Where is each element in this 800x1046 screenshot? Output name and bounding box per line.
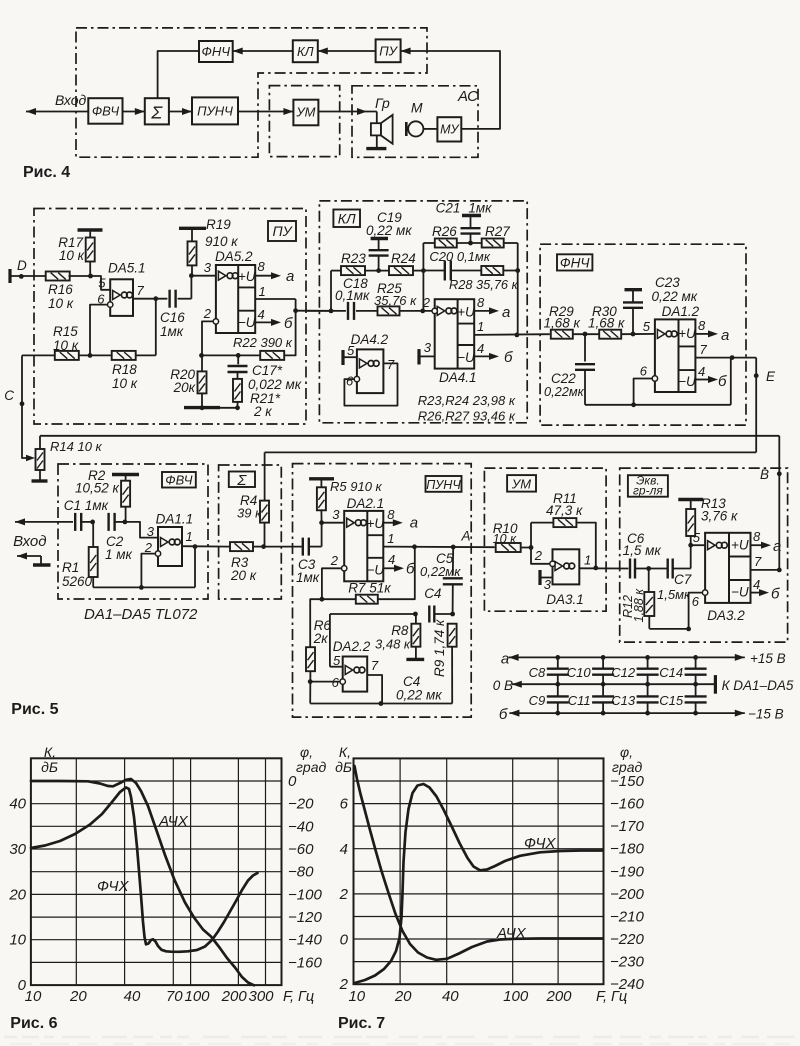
- fig4 block ПУ: [376, 39, 401, 62]
- svg-text:DA3.2: DA3.2: [707, 608, 745, 623]
- svg-text:0,22 мк: 0,22 мк: [652, 289, 698, 304]
- svg-text:3: 3: [544, 577, 552, 592]
- svg-text:ФВЧ: ФВЧ: [92, 104, 120, 119]
- ground bar under R20 R21: [184, 405, 240, 410]
- svg-text:Вход: Вход: [55, 92, 87, 108]
- svg-text:+15 В: +15 В: [750, 651, 786, 666]
- ПУ block dash-dot box: [34, 209, 306, 425]
- svg-text:−U: −U: [366, 563, 384, 578]
- DA1.2 pin6 feedback wire: [585, 358, 731, 408]
- DA1.2 output a arrow: [695, 327, 729, 344]
- svg-text:DA2.1: DA2.1: [347, 496, 385, 511]
- bottom page scan remnants: [4, 1037, 795, 1044]
- node E and feedback wire to R4: [265, 358, 776, 501]
- svg-text:0: 0: [340, 931, 349, 948]
- resistor R6: [306, 599, 340, 703]
- svg-text:R15: R15: [53, 324, 78, 339]
- svg-text:4: 4: [698, 364, 705, 379]
- svg-text:1 мк: 1 мк: [105, 547, 133, 562]
- svg-text:дБ: дБ: [41, 759, 58, 775]
- fig4 block ПУНЧ: [192, 97, 238, 124]
- svg-text:DA5.1: DA5.1: [108, 261, 146, 276]
- fig4 block МУ: [437, 117, 461, 141]
- svg-text:20 к: 20 к: [230, 568, 257, 583]
- svg-text:+U: +U: [457, 304, 475, 319]
- svg-text:R23: R23: [341, 251, 366, 266]
- fig4 block КЛ: [293, 40, 318, 62]
- caption Рис. 5: [11, 701, 58, 718]
- resistor R1: [62, 520, 98, 590]
- fig4 wire ФВЧ to Σ: [123, 108, 145, 115]
- fig6 graph grid: [31, 758, 282, 985]
- wire ПУ output into КЛ, junction to R23: [329, 271, 342, 314]
- УМ block dash-dot box: [484, 468, 606, 611]
- fig4 wire КЛ to ФНЧ: [233, 48, 293, 55]
- svg-text:Гр: Гр: [375, 95, 390, 111]
- svg-text:5: 5: [98, 276, 106, 291]
- КЛ block dash-dot box: [319, 201, 527, 423]
- svg-text:Е: Е: [766, 369, 776, 384]
- op-amp DA5.2: [203, 249, 266, 333]
- svg-text:К DA1–DA5: К DA1–DA5: [722, 678, 794, 693]
- svg-text:R1: R1: [62, 560, 79, 575]
- svg-text:0,1мк: 0,1мк: [335, 288, 370, 303]
- svg-text:10 к: 10 к: [53, 338, 79, 353]
- capacitor C22: [544, 332, 599, 405]
- fig7 graph grid: [354, 758, 604, 984]
- svg-text:8: 8: [477, 295, 485, 310]
- DA3.2 output a arrow: [751, 538, 782, 555]
- svg-text:−60: −60: [288, 841, 314, 858]
- svg-text:ПУ: ПУ: [379, 44, 398, 59]
- svg-text:К,: К,: [44, 744, 56, 760]
- svg-text:4: 4: [340, 841, 348, 858]
- op-amp DA5.1: [97, 261, 145, 316]
- svg-text:а: а: [502, 304, 510, 321]
- feedback wire B-line from R14 to Экв block: [40, 436, 779, 570]
- svg-text:Рис. 5: Рис. 5: [11, 701, 58, 718]
- svg-text:7: 7: [387, 357, 395, 372]
- svg-text:100: 100: [503, 988, 529, 1005]
- svg-text:−40: −40: [288, 818, 314, 835]
- svg-text:2: 2: [422, 295, 431, 310]
- svg-text:1,5мк: 1,5мк: [657, 587, 691, 602]
- svg-text:2к: 2к: [313, 631, 329, 646]
- svg-text:б: б: [504, 349, 513, 366]
- wire DA5.2 pin2 down: [202, 321, 213, 355]
- fig4 wire ПУНЧ to УМ: [238, 108, 293, 115]
- svg-text:3: 3: [424, 340, 432, 355]
- svg-text:200: 200: [221, 988, 248, 1005]
- svg-text:+U: +U: [678, 326, 696, 341]
- fig6 left axis labels K dB: [8, 744, 58, 994]
- svg-text:С7: С7: [674, 572, 692, 587]
- DA3.1 pin3 ground terminal: [540, 570, 553, 585]
- УМ block tag: [507, 475, 536, 492]
- svg-text:1,88 к: 1,88 к: [632, 588, 646, 623]
- svg-text:39 к: 39 к: [237, 506, 262, 521]
- svg-text:1мк: 1мк: [468, 201, 492, 216]
- svg-text:С4: С4: [424, 586, 441, 601]
- DA3.2 output б arrow: [751, 586, 781, 603]
- svg-text:С11: С11: [568, 693, 591, 708]
- capacitor C7: [649, 559, 692, 603]
- svg-text:20: 20: [8, 886, 26, 903]
- svg-text:10: 10: [9, 932, 26, 949]
- ПУНЧ block dash-dot box: [293, 464, 472, 717]
- svg-text:−160: −160: [610, 796, 644, 813]
- svg-text:С16: С16: [160, 310, 185, 325]
- svg-text:8: 8: [258, 259, 266, 274]
- svg-text:6: 6: [346, 374, 354, 389]
- svg-text:С10: С10: [567, 665, 592, 680]
- svg-text:R22 390 к: R22 390 к: [233, 335, 293, 350]
- wire DA4.1 pin1 output to ФНЧ: [474, 333, 550, 338]
- svg-text:а: а: [773, 538, 781, 555]
- svg-text:Рис. 4: Рис. 4: [23, 164, 70, 181]
- svg-text:КЛ: КЛ: [338, 211, 356, 227]
- svg-text:DA1.2: DA1.2: [662, 304, 700, 319]
- fig7 x axis labels F Hz: [348, 988, 627, 1005]
- fig7 curve ФЧХ: [355, 784, 603, 983]
- svg-text:АЧХ: АЧХ: [496, 925, 527, 942]
- svg-text:R5 910 к: R5 910 к: [330, 479, 383, 494]
- resistor R10: [493, 521, 521, 552]
- resistor R16: [46, 272, 74, 312]
- resistor R26: [423, 224, 457, 248]
- DA4.1 pin3 ground terminal: [419, 340, 435, 365]
- fig7 left axis labels K dB: [335, 744, 352, 993]
- svg-text:910 к: 910 к: [205, 234, 238, 249]
- svg-text:АС: АС: [457, 88, 478, 105]
- DA5.2 output a arrow: [255, 268, 294, 285]
- svg-text:R28 35,76 к: R28 35,76 к: [449, 277, 519, 292]
- svg-text:АЧХ: АЧХ: [158, 813, 189, 830]
- svg-text:R19: R19: [206, 217, 231, 232]
- ФВЧ block dash-dot box: [58, 464, 208, 599]
- svg-text:2: 2: [534, 548, 543, 563]
- resistor R3: [230, 542, 257, 583]
- fig4 wire Σ to ПУНЧ: [169, 108, 192, 115]
- svg-text:ПУНЧ: ПУНЧ: [426, 478, 461, 492]
- resistor R30: [588, 304, 655, 339]
- ФНЧ block tag: [557, 254, 592, 270]
- fig6 АЧХ label: [158, 813, 189, 830]
- svg-text:1: 1: [186, 529, 193, 544]
- wire DA5.2 pin1 to R22 and КЛ exit: [255, 299, 331, 355]
- label DA1-DA5 TL072: [84, 606, 198, 623]
- svg-text:С13: С13: [611, 693, 636, 708]
- svg-text:R18: R18: [112, 362, 137, 377]
- svg-text:7: 7: [137, 283, 145, 298]
- svg-text:−220: −220: [610, 931, 644, 948]
- svg-text:R23,R24 23,98 к: R23,R24 23,98 к: [418, 393, 516, 408]
- svg-text:3: 3: [204, 260, 212, 275]
- op-amp DA4.2 voltage follower: [343, 332, 398, 406]
- svg-text:10: 10: [348, 988, 365, 1005]
- resistor R29: [544, 304, 581, 339]
- svg-text:5: 5: [333, 653, 341, 668]
- fig4 wire УМ to Гр with arrow: [318, 108, 376, 115]
- svg-text:5: 5: [693, 530, 701, 545]
- resistor R20: [170, 355, 206, 407]
- svg-text:−U: −U: [457, 350, 475, 365]
- svg-text:С21: С21: [436, 201, 461, 216]
- svg-text:4: 4: [258, 307, 265, 322]
- fig4 caption Рис. 4: [23, 164, 70, 181]
- svg-text:6: 6: [332, 675, 340, 690]
- fig4 block ФВЧ: [88, 98, 122, 124]
- note R23 R24 values: [418, 393, 516, 424]
- wire DA2.1 pin1 to node A: [383, 529, 494, 550]
- svg-text:−180: −180: [610, 841, 644, 858]
- wire right vertical to DA4.1 pin1: [517, 243, 519, 335]
- svg-text:0,022 мк: 0,022 мк: [248, 377, 302, 392]
- svg-text:6: 6: [692, 594, 700, 609]
- svg-text:20: 20: [69, 988, 87, 1005]
- fig4 wire Вход line: [26, 92, 88, 115]
- svg-text:8: 8: [753, 529, 761, 544]
- svg-text:4: 4: [388, 552, 395, 567]
- resistor R28: [449, 266, 520, 292]
- svg-text:DA4.2: DA4.2: [351, 332, 389, 347]
- resistor R27: [482, 224, 518, 248]
- svg-text:а: а: [410, 515, 418, 532]
- svg-text:1,68 к: 1,68 к: [588, 316, 625, 331]
- Σ block tag: [229, 472, 255, 489]
- svg-text:DA4.1: DA4.1: [439, 370, 477, 385]
- capacitor C5: [420, 547, 463, 614]
- resistor R8 with ground: [375, 614, 424, 659]
- svg-text:−170: −170: [610, 818, 644, 835]
- svg-text:6: 6: [340, 796, 349, 813]
- svg-text:DA1–DA5 TL072: DA1–DA5 TL072: [84, 606, 198, 623]
- resistor R17 with power bar: [58, 230, 102, 276]
- node D input terminal: [10, 258, 47, 283]
- svg-text:0,22мк: 0,22мк: [420, 564, 461, 579]
- svg-text:1: 1: [477, 319, 484, 334]
- fig6 ФЧХ label: [97, 878, 130, 895]
- svg-text:К,: К,: [339, 744, 351, 760]
- svg-text:3: 3: [332, 507, 340, 522]
- svg-text:R7 51к: R7 51к: [348, 581, 391, 596]
- svg-text:С17*: С17*: [252, 363, 283, 378]
- svg-text:4: 4: [477, 341, 484, 356]
- svg-text:ФВЧ: ФВЧ: [165, 473, 193, 488]
- svg-text:35,76 к: 35,76 к: [374, 293, 417, 308]
- op-amp DA1.2: [640, 304, 708, 392]
- capacitor C16: [160, 290, 191, 339]
- svg-text:F, Гц: F, Гц: [283, 989, 314, 1005]
- svg-text:70: 70: [166, 988, 183, 1005]
- svg-text:С15: С15: [659, 693, 684, 708]
- svg-text:Σ: Σ: [150, 103, 163, 123]
- svg-text:R26: R26: [432, 224, 457, 239]
- svg-text:б: б: [771, 586, 780, 603]
- svg-text:10: 10: [25, 988, 42, 1005]
- wire R16 to DA5.1 junction: [69, 274, 111, 290]
- svg-text:0,22мк: 0,22мк: [544, 384, 585, 399]
- svg-text:−U: −U: [731, 585, 749, 600]
- wire R10 to DA3.1 pin2: [521, 545, 550, 564]
- svg-text:R24: R24: [391, 251, 416, 266]
- svg-text:10 к: 10 к: [48, 296, 74, 311]
- resistor R22: [199, 335, 293, 360]
- svg-text:−100: −100: [288, 886, 322, 903]
- svg-text:+U: +U: [238, 269, 256, 284]
- fig4 microphone М: [406, 100, 423, 137]
- resistor R21*: [233, 379, 281, 419]
- svg-text:−160: −160: [288, 954, 322, 971]
- op-amp DA3.2: [691, 529, 762, 623]
- resistor R12: [621, 566, 654, 629]
- Вход input arrows: [13, 518, 73, 565]
- wire DA1.1 output to R3: [182, 544, 230, 549]
- svg-text:−210: −210: [610, 909, 644, 926]
- svg-text:С9: С9: [529, 693, 546, 708]
- power rail 0V: [493, 675, 794, 694]
- resistor R5 with power bar: [309, 479, 382, 523]
- DA4.1 output a arrow: [474, 304, 510, 321]
- svg-text:ФНЧ: ФНЧ: [560, 256, 590, 271]
- wire DA1.2 pin7 to node E: [695, 355, 756, 360]
- svg-text:УМ: УМ: [295, 105, 315, 120]
- svg-text:10 к: 10 к: [493, 532, 517, 546]
- fig7 АЧХ label: [496, 925, 527, 942]
- svg-text:F, Гц: F, Гц: [596, 989, 627, 1005]
- svg-text:R27: R27: [485, 224, 510, 239]
- svg-text:ФЧХ: ФЧХ: [524, 835, 557, 852]
- capacitor C20: [423, 249, 490, 281]
- wire DA5.1 pin6 feedback: [90, 305, 108, 356]
- power rail +15V: [501, 651, 786, 668]
- svg-text:КЛ: КЛ: [297, 44, 314, 59]
- svg-text:R16: R16: [48, 282, 73, 297]
- op-amp DA2.2 follower: [330, 639, 379, 692]
- fig4 block Σ (summer): [145, 98, 169, 124]
- op-amp DA3.1: [534, 548, 591, 607]
- svg-text:а: а: [286, 268, 294, 285]
- svg-text:7: 7: [700, 342, 708, 357]
- wire R18 to DA5.1 output: [133, 296, 167, 355]
- svg-text:ФЧХ: ФЧХ: [97, 878, 130, 895]
- wire DA2.2 pin7 to bottom rail: [310, 675, 452, 706]
- svg-text:М: М: [411, 100, 423, 116]
- svg-text:2: 2: [330, 553, 339, 568]
- svg-text:−80: −80: [288, 864, 314, 881]
- DA4.1 output б arrow: [474, 349, 513, 366]
- wire DA3.2 pin6 feedback to R12: [649, 593, 702, 632]
- caption Рис. 6: [10, 1015, 57, 1032]
- svg-text:1мк: 1мк: [160, 324, 184, 339]
- wire DA2.1 pin2 down to R7: [320, 568, 342, 601]
- capacitor C3: [296, 538, 322, 585]
- fig4 wire М to МУ: [423, 128, 437, 130]
- fig4 wire ПУ to КЛ: [318, 48, 376, 55]
- svg-text:УМ: УМ: [511, 477, 531, 492]
- op-amp DA1.1: [144, 512, 193, 567]
- svg-text:3,48 к: 3,48 к: [375, 637, 411, 652]
- resistor R18: [79, 351, 156, 391]
- wire Σ output to C3: [264, 546, 304, 548]
- DA2.1 output a arrow: [383, 515, 418, 532]
- svg-text:б: б: [499, 706, 508, 723]
- svg-text:0 В: 0 В: [493, 678, 513, 693]
- potentiometer R14 with ground: [32, 436, 103, 481]
- fig4 wire ФНЧ to Σ: [158, 51, 199, 98]
- svg-text:40: 40: [442, 988, 459, 1005]
- capacitor C6: [623, 531, 662, 579]
- svg-text:−190: −190: [610, 863, 644, 880]
- svg-text:С23: С23: [655, 275, 680, 290]
- svg-text:φ,: φ,: [620, 744, 633, 760]
- svg-text:40: 40: [124, 988, 141, 1005]
- capacitor C17*: [228, 355, 302, 392]
- svg-text:1: 1: [584, 553, 591, 568]
- ФНЧ block dash-dot box: [540, 244, 746, 425]
- op-amp DA2.1: [330, 496, 395, 581]
- resistor R15: [22, 324, 79, 360]
- svg-text:Рис. 7: Рис. 7: [338, 1015, 385, 1032]
- svg-text:10,52 к: 10,52 к: [75, 481, 120, 496]
- svg-text:−U: −U: [238, 315, 256, 330]
- svg-text:ФНЧ: ФНЧ: [202, 44, 231, 59]
- svg-text:дБ: дБ: [335, 759, 352, 775]
- capacitor C2: [105, 513, 133, 562]
- svg-text:R14 10 к: R14 10 к: [50, 439, 103, 454]
- svg-text:С20 0,1мк: С20 0,1мк: [429, 249, 490, 264]
- svg-text:3,76 к: 3,76 к: [701, 509, 738, 524]
- fig6 curve АЧХ: [31, 779, 254, 985]
- svg-text:1: 1: [259, 284, 266, 299]
- svg-text:10 к: 10 к: [59, 248, 85, 263]
- svg-text:−230: −230: [610, 954, 644, 971]
- svg-text:−U: −U: [678, 374, 696, 389]
- resistor R11 feedback: [531, 491, 596, 568]
- Экв гр-ля block dash-dot box: [620, 468, 788, 642]
- svg-text:гр-ля: гр-ля: [633, 484, 663, 498]
- resistor R4: [237, 493, 269, 549]
- svg-text:МУ: МУ: [440, 123, 460, 137]
- resistor R7: [322, 547, 415, 604]
- ФВЧ block tag: [162, 472, 196, 488]
- svg-text:С1 1мк: С1 1мк: [64, 498, 109, 513]
- fig6 x axis labels F Hz: [25, 988, 315, 1005]
- resistor R25: [374, 281, 432, 315]
- svg-text:2: 2: [203, 306, 212, 321]
- resistor R9: [432, 619, 457, 704]
- svg-text:а: а: [721, 327, 729, 344]
- svg-text:1,5 мк: 1,5 мк: [623, 543, 662, 558]
- fig7 ФЧХ label: [524, 835, 557, 852]
- svg-text:0,22 мк: 0,22 мк: [366, 223, 412, 238]
- svg-text:20к: 20к: [173, 380, 196, 395]
- svg-text:−15 В: −15 В: [748, 707, 784, 722]
- caption Рис. 7: [338, 1015, 385, 1032]
- svg-text:300: 300: [248, 988, 274, 1005]
- label C4 0,22мк: [396, 674, 442, 703]
- svg-text:Рис. 6: Рис. 6: [10, 1015, 57, 1032]
- wire DA3.2 pin7 to node B vertical: [751, 568, 782, 573]
- svg-text:0: 0: [288, 773, 297, 790]
- svg-text:А: А: [461, 529, 471, 544]
- svg-text:а: а: [501, 651, 509, 668]
- fig4 АС dash-dot box: [352, 86, 478, 158]
- svg-text:8: 8: [698, 318, 706, 333]
- op-amp DA4.1: [422, 295, 485, 385]
- svg-text:5: 5: [347, 343, 355, 358]
- svg-text:1мк: 1мк: [296, 570, 320, 585]
